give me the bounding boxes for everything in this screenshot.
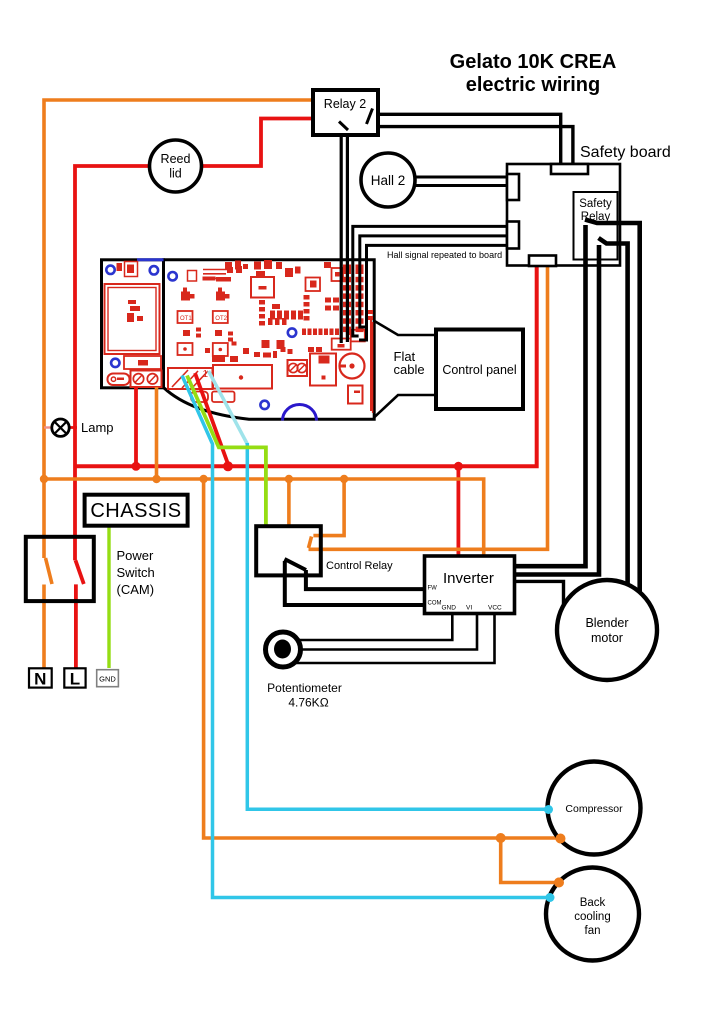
svg-text:Control Relay: Control Relay <box>326 560 393 572</box>
wire orange bus into relay coil <box>313 479 344 536</box>
module pill terminal <box>108 374 130 386</box>
chassis box <box>85 495 188 526</box>
wire orange module drop <box>155 387 159 479</box>
svg-text:OT1: OT1 <box>180 316 192 322</box>
lower smd parts <box>262 340 270 348</box>
relay2 contact blade <box>339 122 348 131</box>
compressor circle <box>548 762 641 855</box>
svg-text:Lamp: Lamp <box>81 420 114 435</box>
opto OT1 <box>178 311 193 323</box>
transistor group T2 <box>216 292 225 301</box>
mounting hole <box>260 401 268 409</box>
terminal dot orange fan <box>554 878 564 888</box>
wire red module drop <box>134 387 138 466</box>
potentiometer <box>266 632 301 667</box>
ic U1 <box>251 277 274 298</box>
terminal dot cyan compressor <box>544 805 553 814</box>
terminal screws mid <box>288 360 308 376</box>
wire inverter GND to pot <box>299 614 452 641</box>
wire cyan to compressor <box>247 443 547 809</box>
junction orange <box>40 475 48 483</box>
svg-text:GND: GND <box>442 605 457 612</box>
wire hall2 to safety board B <box>415 184 507 187</box>
wire red reed lid to power switch <box>75 166 149 560</box>
module relay outline <box>105 284 160 354</box>
bottom pill connectors <box>191 392 208 403</box>
hall wire header box B <box>351 330 365 342</box>
svg-text:Blender: Blender <box>585 616 628 630</box>
wire control relay to inverter COM <box>285 561 425 605</box>
PCB main board outline <box>164 260 375 419</box>
safety board box <box>507 164 620 266</box>
module top component <box>125 262 138 277</box>
mounting hole <box>111 359 119 367</box>
U1 mark <box>259 286 267 290</box>
svg-text:Safety: Safety <box>579 198 612 210</box>
right edge pads <box>366 310 373 314</box>
svg-text:Control panel: Control panel <box>442 363 516 377</box>
smd cluster top-mid <box>254 262 261 270</box>
junction orange <box>152 475 160 483</box>
cluster right-mid <box>325 298 331 303</box>
wire relay2 to safety board top B <box>378 127 573 164</box>
svg-text:Safety board: Safety board <box>580 144 671 161</box>
mounting hole <box>106 266 114 274</box>
svg-text:GND: GND <box>99 675 116 684</box>
safety relay switch1 blade <box>585 220 640 593</box>
opto OT2 <box>213 311 228 323</box>
wire orange main bus <box>44 479 484 556</box>
terminal dot cyan compressor <box>544 805 553 814</box>
svg-text:Potentiometer: Potentiometer <box>267 681 342 695</box>
wire orange N feed top <box>44 100 313 558</box>
wire red pcb diagonal <box>195 373 228 464</box>
svg-text:cable: cable <box>394 362 425 377</box>
junction red <box>454 462 463 471</box>
wire connector hatched <box>168 368 213 389</box>
relay2 box <box>313 90 378 135</box>
junction orange <box>199 475 207 483</box>
svg-text:motor: motor <box>591 631 623 645</box>
wire orange to N terminal <box>42 585 46 669</box>
svg-text:VI: VI <box>466 605 472 612</box>
power switch box <box>26 537 94 601</box>
junction red <box>132 462 141 471</box>
pad box Q2 <box>213 343 228 356</box>
wire red bus to inverter <box>456 466 460 556</box>
wire red to L terminal <box>74 584 78 668</box>
wire green pcb to control relay <box>187 376 266 528</box>
hall wire header box A <box>332 339 351 350</box>
mounting hole <box>288 328 296 336</box>
mid pad column <box>259 300 265 305</box>
power switch blade right <box>76 560 84 584</box>
svg-text:OT2: OT2 <box>215 316 227 322</box>
terminal dot cyan fan <box>546 893 555 902</box>
relay2 switch mark <box>367 109 373 125</box>
wire inverter VCC to pot <box>295 614 495 664</box>
safety relay switch2 contact to inverter <box>515 245 600 575</box>
wire hall repeat 3 <box>359 245 507 340</box>
terminal dot orange compressor <box>556 834 566 844</box>
junction orange <box>340 475 348 483</box>
relay K2 tall <box>310 354 336 386</box>
module lower bracket <box>124 356 161 369</box>
svg-text:VCC: VCC <box>488 605 502 612</box>
wire green chassis ground <box>107 526 110 669</box>
wire relay2 hall drop B <box>346 135 349 342</box>
resistor array row <box>270 311 275 320</box>
orange relay blade <box>309 537 312 549</box>
safety relay switch2 blade <box>599 238 628 589</box>
terminal dot orange fan <box>554 878 564 888</box>
wire orange fan branch <box>501 838 560 883</box>
mounting hole <box>168 272 176 280</box>
pin header grid <box>343 265 351 271</box>
lamp symbol <box>52 419 69 436</box>
power module box <box>102 260 164 388</box>
svg-text:lid: lid <box>169 167 182 181</box>
junction red <box>223 461 233 471</box>
wire hall repeat 2 <box>360 236 507 327</box>
smd mid parts <box>183 330 190 336</box>
svg-text:Back: Back <box>580 897 606 909</box>
smd cluster top-left of main <box>203 277 216 281</box>
svg-text:CHASSIS: CHASSIS <box>90 500 181 522</box>
lamp stub right <box>69 426 77 429</box>
wire orange compressor/fan feed <box>204 479 561 838</box>
wire inverter to blender motor <box>515 581 564 605</box>
svg-text:(CAM): (CAM) <box>117 582 155 597</box>
safety board top tab <box>551 164 588 174</box>
safety board left tab 2 <box>507 222 519 249</box>
svg-text:Hall 2: Hall 2 <box>371 173 406 188</box>
svg-text:fan: fan <box>585 925 601 937</box>
svg-text:L: L <box>70 670 80 689</box>
safety board left tab 1 <box>507 174 519 200</box>
wire pale cyan diagonal <box>209 371 248 444</box>
svg-text:Reed: Reed <box>161 152 191 166</box>
svg-text:FW: FW <box>428 586 438 592</box>
wire inverter VI to pot <box>301 614 478 650</box>
L terminal box <box>64 668 85 687</box>
wire red relay2 to reed lid <box>203 119 313 167</box>
control relay box <box>256 526 321 575</box>
N terminal box <box>29 668 52 687</box>
terminal dot cyan fan <box>546 893 555 902</box>
svg-text:cooling: cooling <box>574 911 610 923</box>
lamp stub left <box>44 426 52 428</box>
wire connector white <box>213 365 272 389</box>
reed lid circle <box>150 140 202 192</box>
svg-text:COM: COM <box>428 601 442 607</box>
pad box Q1 <box>178 343 193 355</box>
safety board bottom tab <box>529 256 556 267</box>
svg-text:Inverter: Inverter <box>443 570 494 587</box>
svg-text:4.76KΩ: 4.76KΩ <box>288 696 328 710</box>
flat cable funnel top <box>374 321 436 335</box>
wire orange lower run to safety board <box>309 266 548 549</box>
svg-text:Power: Power <box>117 548 155 563</box>
inverter box <box>425 556 515 614</box>
wire hall2 to safety board A <box>415 176 507 179</box>
ic U2 <box>306 278 321 292</box>
wire cyan pcb to back fan <box>182 376 549 898</box>
back cooling fan circle <box>546 868 639 961</box>
safety relay switch1 contact to inverter <box>515 225 586 566</box>
svg-text:Relay 2: Relay 2 <box>324 97 366 111</box>
svg-text:Compressor: Compressor <box>565 803 623 815</box>
wire relay2 hall drop A <box>340 124 343 343</box>
electrolytic cap C9 <box>340 354 365 379</box>
svg-text:Hall signal repeated to board: Hall signal repeated to board <box>387 250 502 260</box>
control relay blade <box>285 559 307 570</box>
right edge traces <box>370 319 372 411</box>
PCB cutout blue arc <box>283 405 317 421</box>
power switch blade left <box>46 558 53 584</box>
svg-text:electric wiring: electric wiring <box>466 74 601 96</box>
junction orange <box>496 833 506 843</box>
junction orange <box>285 475 293 483</box>
blender motor circle <box>557 580 657 680</box>
connector J3 <box>332 268 344 281</box>
mounting hole <box>150 266 158 274</box>
bottom right box <box>348 386 363 404</box>
module screw terminal block <box>131 371 162 388</box>
hall2 circle <box>361 153 415 207</box>
wire orange bus to control relay <box>287 479 291 527</box>
wire hall repeat 1 <box>353 226 507 336</box>
svg-text:N: N <box>34 670 46 689</box>
mid column pads <box>304 295 310 300</box>
GND terminal box <box>97 670 119 687</box>
svg-text:Switch: Switch <box>117 565 155 580</box>
svg-text:1: 1 <box>203 369 209 380</box>
safety relay box <box>574 192 618 260</box>
flat cable funnel bottom <box>374 395 436 418</box>
svg-text:Gelato 10K CREA: Gelato 10K CREA <box>450 51 617 73</box>
module small parts <box>117 263 123 271</box>
control panel box <box>436 330 523 410</box>
transistor group T1 <box>181 292 190 301</box>
caterpillar row <box>302 329 306 336</box>
wire control relay to inverter FW <box>306 570 425 589</box>
connector din <box>188 271 197 282</box>
wire relay2 to safety board top A <box>378 114 561 164</box>
module top blue edge segment <box>137 258 164 261</box>
jumper links <box>203 269 227 271</box>
wire red main bus <box>75 266 537 466</box>
terminal dot orange compressor <box>556 834 566 844</box>
